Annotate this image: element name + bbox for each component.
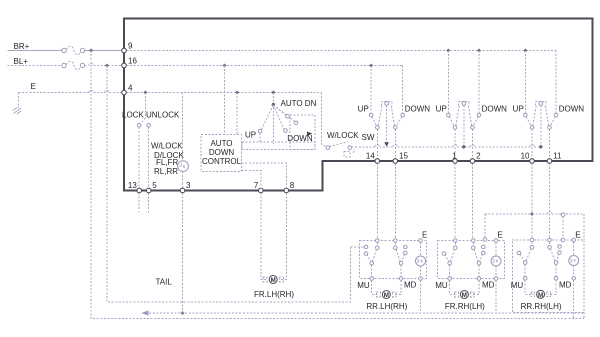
module RR.RH(LH) relay L stub xyxy=(531,242,533,246)
svg-text:7: 7 xyxy=(254,181,259,190)
sw1 pivot circle xyxy=(385,102,389,106)
wire BL+ feed left xyxy=(8,65,62,67)
selector blade to DOWN 3 xyxy=(273,105,284,129)
svg-text:UP: UP xyxy=(245,131,256,140)
svg-text:RR.RH(LH): RR.RH(LH) xyxy=(521,302,562,311)
terminal 10 xyxy=(530,159,535,164)
svg-text:2: 2 xyxy=(476,152,481,161)
contact DOWN c xyxy=(284,129,288,133)
svg-text:AUTO DN: AUTO DN xyxy=(281,99,317,108)
auto dn lower box xyxy=(242,142,315,150)
svg-text:SW: SW xyxy=(362,133,375,142)
wire module2 E to bus2 xyxy=(495,280,497,313)
contact UP (auto dn) xyxy=(258,129,262,133)
svg-text:FR.LH(RH): FR.LH(RH) xyxy=(254,290,294,299)
module FR.RH(LH) top contact L xyxy=(454,239,458,243)
svg-text:MD: MD xyxy=(482,281,495,290)
junction BL+/adc xyxy=(223,64,227,68)
junction BR+/sw3-up xyxy=(523,49,527,53)
wire E down to ground xyxy=(18,93,20,109)
wire BL+ fuse to terminal 16 xyxy=(85,65,89,67)
terminal 5 stub below xyxy=(148,193,150,213)
svg-text:4: 4 xyxy=(128,84,133,93)
svg-text:BL+: BL+ xyxy=(14,57,29,66)
junction BR+/sw2-down xyxy=(477,49,481,53)
wire lock contact to terminal 13 xyxy=(138,127,140,188)
module RR.RH(LH) box xyxy=(513,240,585,313)
wire BR+ bus (pin 9) xyxy=(126,50,556,52)
svg-text:TAIL: TAIL xyxy=(156,278,173,287)
svg-text:CONTROL: CONTROL xyxy=(202,157,242,166)
module RR.RH(LH) E contact bottom xyxy=(572,277,576,281)
module RR.LH(RH) top contact R xyxy=(394,239,398,243)
sw1 blade left xyxy=(378,106,382,126)
motor FR.LH xyxy=(263,276,283,285)
selector blade to DOWN 1 xyxy=(273,105,286,115)
module RR.RH(LH) relay R fixed a xyxy=(558,245,562,249)
module FR.RH(LH) box xyxy=(438,241,505,279)
module FR.RH(LH) MD contact xyxy=(477,277,481,281)
wire terminal 14 to module1 xyxy=(376,163,378,238)
sw1 DOWN fixed contact xyxy=(401,113,405,117)
module FR.RH(LH) top contact E xyxy=(494,239,498,243)
module RR.LH(RH) box xyxy=(360,241,427,279)
module RR.RH(LH) relay R fixed b xyxy=(558,251,562,255)
sw1 DOWN feed wire xyxy=(402,113,404,115)
module RR.RH(LH) MU wire xyxy=(524,264,526,278)
svg-text:MD: MD xyxy=(559,281,572,290)
module RR.RH(LH) relay L blade xyxy=(526,249,531,261)
module RR.RH(LH) relay R contact xyxy=(554,261,558,265)
sw2 pivot bracket xyxy=(459,101,469,105)
module FR.RH(LH) relay L stub contact xyxy=(454,246,458,250)
module RR.LH(RH) relay R contact xyxy=(399,261,403,265)
module RR.LH(RH) relay R stub xyxy=(394,242,396,246)
selector common wire xyxy=(272,93,274,145)
svg-text:W/LOCK: W/LOCK xyxy=(151,142,183,151)
selector blade to DOWN 2 xyxy=(273,105,294,121)
sw1 UP contact blade xyxy=(372,117,377,126)
sw3 pivot bracket xyxy=(536,101,546,105)
terminal 7 xyxy=(259,188,264,193)
sw3 common junction xyxy=(539,145,543,149)
wire TAIL terminal 3 down xyxy=(182,193,184,313)
terminal 15 xyxy=(393,159,398,164)
svg-text:9: 9 xyxy=(128,42,133,51)
motor FR.RH(LH) wires xyxy=(450,280,457,294)
sw1 wire to terminal 15 xyxy=(394,129,396,159)
actuator coil (door lock) xyxy=(178,161,189,172)
sw3 DOWN fixed contact xyxy=(554,113,558,117)
junction BL+/sw1-up xyxy=(369,64,373,68)
junction E/autodn xyxy=(271,91,275,95)
contact wlock right xyxy=(348,146,352,150)
module RR.LH(RH) MU contact xyxy=(370,277,374,281)
contact jog/module3 stub xyxy=(561,213,565,217)
svg-text:RL,RR: RL,RR xyxy=(154,167,178,176)
module FR.RH(LH) MU wire xyxy=(449,265,451,279)
svg-text:UP: UP xyxy=(513,105,524,114)
wire E down to wlock sw xyxy=(322,93,327,148)
wire BL+ corner down to sw1 DOWN xyxy=(402,66,404,115)
contact unlock xyxy=(147,124,151,128)
circuit breaker RR.LH(RH) xyxy=(416,242,426,276)
wire adc to terminal 7 xyxy=(242,171,261,189)
wire module1 E to bus2 xyxy=(420,280,422,313)
sw2 wire to terminal 1 xyxy=(454,129,456,159)
svg-text:FR.RH(LH): FR.RH(LH) xyxy=(445,302,485,311)
circuit breaker RR.RH(LH) xyxy=(569,242,579,277)
sw2 DOWN contact blade xyxy=(473,117,478,126)
module RR.LH(RH) relay R stub contact xyxy=(394,246,398,250)
contact DOWN b xyxy=(294,121,298,125)
svg-text:DOWN: DOWN xyxy=(559,105,585,114)
wire terminal 11 to module3 xyxy=(549,163,551,238)
wire lock common xyxy=(144,93,146,119)
svg-text:16: 16 xyxy=(128,57,137,66)
wire terminal 8 to motor xyxy=(281,193,286,280)
module RR.LH(RH) relay L fixed b xyxy=(364,252,368,256)
wire module2 stub up xyxy=(484,214,486,238)
contact DOWN a xyxy=(286,114,290,118)
svg-text:E: E xyxy=(575,231,580,240)
svg-text:14: 14 xyxy=(366,152,375,161)
module RR.LH(RH) relay L contact xyxy=(370,261,374,265)
sw1 pivot bracket xyxy=(381,101,391,105)
svg-text:MU: MU xyxy=(357,281,370,290)
module RR.RH(LH) relay L stub contact xyxy=(530,246,534,250)
motor RR.LH(RH) wires xyxy=(372,280,379,294)
circuit breaker FR.RH(LH) xyxy=(491,242,501,276)
wire unlock contact to terminal 5 xyxy=(148,127,150,188)
terminal 5 xyxy=(146,188,151,193)
module FR.RH(LH) E contact bottom xyxy=(494,277,498,281)
jog corner down to module3 xyxy=(583,214,585,240)
wire UP contact stub xyxy=(259,133,261,142)
sw2 UP feed wire xyxy=(447,51,449,114)
module FR.RH(LH) relay L stub xyxy=(454,242,456,246)
arrow to wlock xyxy=(307,131,313,136)
contact wlock left xyxy=(326,146,330,150)
sw2 common junction xyxy=(462,145,466,149)
svg-text:13: 13 xyxy=(128,181,137,190)
wire BR+ drop to bottom bus xyxy=(91,51,584,319)
module2 stub top contact xyxy=(483,238,487,242)
module FR.RH(LH) relay L contact xyxy=(448,261,452,265)
sw2 movable contact right xyxy=(471,126,475,130)
main power window switch outline xyxy=(124,19,593,191)
sw2 DOWN feed wire xyxy=(478,51,480,114)
motor RR.RH(LH) xyxy=(531,290,551,299)
sw1 UP fixed contact xyxy=(369,113,373,117)
wire terminal 2 to module2 xyxy=(472,163,474,237)
bottom bus 2 with arrow xyxy=(142,312,584,314)
svg-text:UNLOCK: UNLOCK xyxy=(146,111,180,120)
sw2 DOWN fixed contact xyxy=(477,113,481,117)
module FR.RH(LH) relay R contact xyxy=(477,261,481,265)
svg-text:RR.LH(RH): RR.LH(RH) xyxy=(366,302,407,311)
sw3 pivot circle xyxy=(539,102,543,106)
svg-text:UP: UP xyxy=(436,105,447,114)
wire terminal 10 to module3 xyxy=(531,163,533,238)
svg-text:M: M xyxy=(384,292,389,299)
svg-text:M: M xyxy=(538,292,543,299)
module RR.LH(RH) relay L stub xyxy=(376,242,378,246)
module3 stub top contact xyxy=(561,238,565,242)
lock switch blade xyxy=(140,118,145,124)
sw3 movable contact right xyxy=(548,126,552,130)
sw2 UP fixed contact xyxy=(447,113,451,117)
wire module3 stub up xyxy=(562,217,564,239)
svg-text:MD: MD xyxy=(404,281,417,290)
module FR.RH(LH) relay R fixed a xyxy=(482,245,486,249)
wlock blade xyxy=(330,142,349,147)
module RR.LH(RH) MD wire xyxy=(400,265,402,279)
module RR.LH(RH) relay L blade xyxy=(373,249,377,261)
terminal 2 xyxy=(470,159,475,164)
wire adc to terminal 8 xyxy=(242,163,287,188)
svg-text:1: 1 xyxy=(452,152,457,161)
sw2 movable contact left xyxy=(453,126,457,130)
module3 right edge extension xyxy=(583,313,585,319)
sw3 DOWN feed wire xyxy=(555,113,557,115)
sw2 pivot circle xyxy=(462,102,466,106)
module RR.RH(LH) top contact L xyxy=(530,238,534,242)
contact lock xyxy=(137,124,141,128)
connector b' xyxy=(344,149,355,157)
svg-text:LOCK: LOCK xyxy=(122,111,144,120)
terminal 11 xyxy=(547,159,552,164)
terminal 8 xyxy=(284,188,289,193)
contact module1 left entry xyxy=(364,245,368,249)
sw3 UP contact blade xyxy=(526,117,531,126)
terminal 4 xyxy=(122,90,127,95)
junction t10 jog xyxy=(530,212,534,216)
module RR.LH(RH) top contact L xyxy=(376,239,380,243)
module FR.RH(LH) relay R blade xyxy=(474,249,478,261)
svg-text:DOWN: DOWN xyxy=(405,105,431,114)
sw1 wire to terminal 14 xyxy=(376,129,378,159)
svg-text:E: E xyxy=(422,231,427,240)
selector pivot xyxy=(272,103,275,106)
sw1 common wire xyxy=(386,106,388,146)
motor FR.RH(LH) xyxy=(455,291,475,300)
junction BL+ drop xyxy=(105,64,109,68)
module RR.RH(LH) relay R blade xyxy=(550,249,555,261)
svg-text:15: 15 xyxy=(399,152,408,161)
module RR.LH(RH) relay R blade xyxy=(396,249,400,261)
module RR.LH(RH) relay R fixed b xyxy=(404,251,408,255)
wire BL+ to adc box xyxy=(224,66,226,135)
module FR.RH(LH) relay R stub contact xyxy=(472,246,476,250)
svg-text:E: E xyxy=(498,231,503,240)
wire BR+ fuse to terminal 9 xyxy=(85,50,122,52)
module FR.RH(LH) relay R fixed b xyxy=(482,251,486,255)
sw2 UP contact blade xyxy=(449,117,454,126)
terminal 16 xyxy=(122,63,127,68)
svg-text:MU: MU xyxy=(511,281,524,290)
sw2 blade right xyxy=(468,106,471,126)
sw3 movable contact left xyxy=(530,126,534,130)
module RR.RH(LH) top contact E xyxy=(572,238,576,242)
sw1 common junction arrow xyxy=(384,142,389,146)
module RR.RH(LH) relay L fixed b xyxy=(517,251,521,255)
module FR.RH(LH) relay R blade2 xyxy=(480,254,483,262)
svg-text:M: M xyxy=(271,277,276,284)
svg-text:DOWN: DOWN xyxy=(209,148,235,157)
fuse F2 (BL+ fusible link) xyxy=(62,61,85,70)
selector blade to UP xyxy=(262,105,274,130)
wire module1 feed drop xyxy=(350,247,352,302)
wire E feed with ground xyxy=(19,92,89,94)
module RR.LH(RH) relay R fixed a xyxy=(404,245,408,249)
svg-text:AUTO: AUTO xyxy=(210,139,232,148)
wire module3 E to bus3 xyxy=(573,280,575,318)
sw3 blade left xyxy=(533,106,536,126)
module RR.LH(RH) top contact E xyxy=(419,239,423,243)
auto dn inner box xyxy=(290,115,315,150)
module RR.RH(LH) relay L contact xyxy=(523,261,527,265)
module RR.LH(RH) E contact bottom xyxy=(419,277,423,281)
svg-text:5: 5 xyxy=(152,181,157,190)
wire terminal 7 to motor xyxy=(261,193,266,280)
sw2 blade left xyxy=(456,106,459,126)
module RR.RH(LH) relay R stub xyxy=(549,242,551,246)
junction E/adc2 xyxy=(235,91,239,95)
sw3 common wire xyxy=(540,106,542,146)
terminal 3 xyxy=(180,188,185,193)
sw3 wire to terminal 11 xyxy=(549,129,551,159)
svg-text:8: 8 xyxy=(290,181,295,190)
svg-text:MU: MU xyxy=(435,281,448,290)
wire actuator to terminal 3 xyxy=(182,172,184,189)
wire E to adc box xyxy=(236,93,238,135)
svg-text:BR+: BR+ xyxy=(14,42,30,51)
sw1 DOWN contact blade xyxy=(396,117,402,126)
module RR.RH(LH) MD contact xyxy=(554,277,558,281)
module RR.RH(LH) top contact R xyxy=(548,238,552,242)
wire terminal 1 to module2 xyxy=(454,163,456,237)
sw1 blade right xyxy=(391,106,394,126)
terminal 9 xyxy=(122,48,127,53)
module FR.RH(LH) MU contact xyxy=(448,277,452,281)
wire wlock bus xyxy=(352,146,376,148)
sw1 movable contact left xyxy=(376,126,380,130)
wire terminal 15 to module1 xyxy=(394,163,396,238)
module RR.RH(LH) relay R blade2 xyxy=(557,254,559,262)
wire BR+ feed left xyxy=(8,50,62,52)
sw3 wire to terminal 10 xyxy=(531,129,533,159)
motor RR.RH(LH) wires xyxy=(525,280,533,294)
wire BL+ bus (pin 16) xyxy=(126,65,402,67)
svg-text:M: M xyxy=(462,292,467,299)
svg-text:11: 11 xyxy=(553,152,562,161)
svg-text:10: 10 xyxy=(521,152,530,161)
ground symbol xyxy=(13,108,21,115)
terminal 13 xyxy=(137,188,142,193)
module RR.RH(LH) relay L blade2 xyxy=(520,254,525,261)
jog bus module2-module3 xyxy=(485,213,547,215)
module FR.RH(LH) top contact R xyxy=(472,239,476,243)
svg-text:FL,FR: FL,FR xyxy=(156,158,178,167)
module RR.LH(RH) relay R blade2 xyxy=(402,254,405,262)
junction BR+ drop xyxy=(89,49,93,53)
sw3 UP feed wire xyxy=(524,51,526,114)
module RR.RH(LH) MU contact xyxy=(523,277,527,281)
sw2 wire to terminal 2 xyxy=(472,129,474,159)
junction tail/bus2 xyxy=(181,311,185,315)
module FR.RH(LH) relay L fixed b xyxy=(442,252,446,256)
svg-text:3: 3 xyxy=(186,181,191,190)
terminal 1 xyxy=(453,159,458,164)
module FR.RH(LH) relay R stub xyxy=(472,242,474,246)
wire E bus (pin 4) xyxy=(126,92,321,94)
wire BL+ drop to bottom bus xyxy=(107,66,351,303)
terminal 14 xyxy=(375,159,380,164)
svg-text:E: E xyxy=(31,82,36,91)
module FR.RH(LH) relay L blade2 xyxy=(445,255,449,262)
sw3 blade right xyxy=(545,106,548,126)
sw2 common wire xyxy=(463,106,465,146)
svg-text:UP: UP xyxy=(358,105,369,114)
module RR.RH(LH) MD wire xyxy=(555,264,557,278)
svg-text:DOWN: DOWN xyxy=(482,105,508,114)
fuse F1 (BR+ fusible link) xyxy=(62,46,85,55)
sw3 DOWN contact blade xyxy=(550,117,555,126)
module RR.LH(RH) relay L blade2 xyxy=(367,255,371,262)
motor RR.LH(RH) xyxy=(377,291,397,300)
module RR.LH(RH) MD contact xyxy=(399,277,403,281)
wire E to actuator xyxy=(182,93,184,161)
wire module1 left feed xyxy=(351,246,365,248)
terminal 13 stub below xyxy=(138,193,140,213)
module RR.LH(RH) MU wire xyxy=(371,265,373,279)
sw1 UP feed wire xyxy=(370,66,372,114)
auto down control box xyxy=(201,135,241,172)
svg-text:W/LOCK: W/LOCK xyxy=(327,131,359,140)
junction BR+/sw2-up xyxy=(446,49,450,53)
module FR.RH(LH) relay L blade xyxy=(451,249,455,261)
wire BR+ corner down to sw3 DOWN xyxy=(555,51,557,115)
sw1 movable contact right xyxy=(394,126,398,130)
module FR.RH(LH) MD wire xyxy=(478,265,480,279)
sw3 UP fixed contact xyxy=(524,113,528,117)
module RR.RH(LH) relay R stub contact xyxy=(548,246,552,250)
junction E/locksw xyxy=(143,91,147,95)
module RR.LH(RH) relay L stub contact xyxy=(376,246,380,250)
